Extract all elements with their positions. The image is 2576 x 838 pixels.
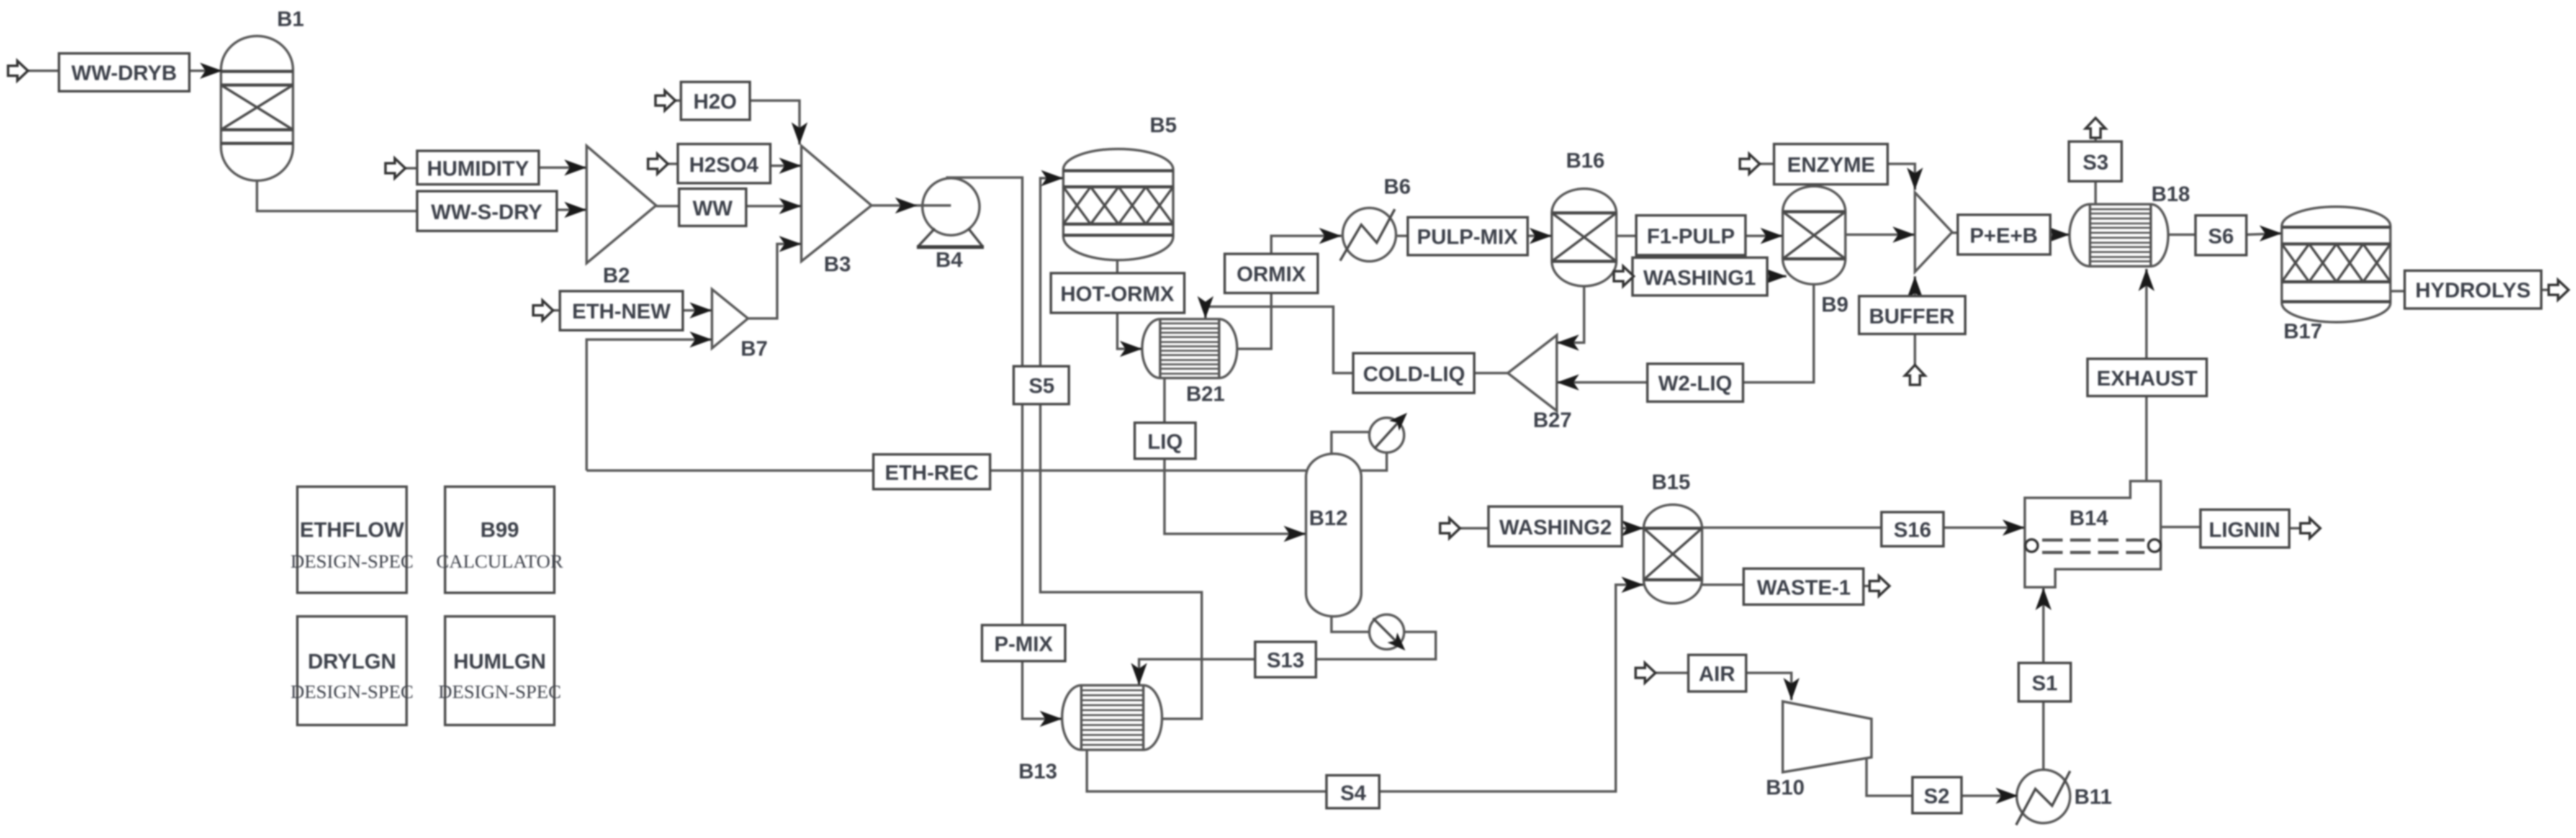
- svg-text:DRYLGN: DRYLGN: [308, 650, 396, 674]
- svg-text:B4: B4: [935, 248, 963, 272]
- svg-text:B14: B14: [2069, 507, 2108, 530]
- svg-text:ETHFLOW: ETHFLOW: [300, 518, 405, 542]
- svg-text:S4: S4: [1340, 782, 1366, 805]
- svg-text:B27: B27: [1533, 408, 1572, 432]
- svg-text:B18: B18: [2151, 182, 2190, 206]
- svg-text:LIQ: LIQ: [1148, 430, 1183, 454]
- svg-text:B2: B2: [603, 264, 629, 287]
- svg-text:HUMIDITY: HUMIDITY: [427, 157, 529, 181]
- svg-text:B12: B12: [1309, 507, 1348, 530]
- svg-text:WW-S-DRY: WW-S-DRY: [431, 200, 543, 224]
- svg-text:P-MIX: P-MIX: [994, 633, 1053, 656]
- svg-text:PULP-MIX: PULP-MIX: [1417, 225, 1518, 249]
- svg-text:H2O: H2O: [693, 90, 737, 114]
- svg-text:B1: B1: [277, 7, 304, 31]
- svg-text:ETH-REC: ETH-REC: [885, 461, 978, 485]
- svg-text:S3: S3: [2083, 151, 2109, 174]
- svg-text:B21: B21: [1186, 382, 1225, 406]
- svg-text:WW-DRYB: WW-DRYB: [71, 61, 177, 85]
- svg-text:P+E+B: P+E+B: [1970, 224, 2038, 248]
- svg-text:LIGNIN: LIGNIN: [2209, 518, 2280, 542]
- svg-text:F1-PULP: F1-PULP: [1647, 225, 1735, 248]
- svg-text:S5: S5: [1029, 374, 1055, 398]
- svg-text:HOT-ORMX: HOT-ORMX: [1060, 282, 1174, 306]
- svg-text:S16: S16: [1894, 518, 1932, 542]
- svg-text:HUMLGN: HUMLGN: [453, 650, 546, 674]
- svg-text:ENZYME: ENZYME: [1787, 153, 1875, 177]
- svg-text:B13: B13: [1019, 760, 1057, 783]
- svg-text:DESIGN-SPEC: DESIGN-SPEC: [290, 551, 413, 572]
- svg-text:S2: S2: [1924, 785, 1950, 808]
- svg-text:COLD-LIQ: COLD-LIQ: [1363, 363, 1465, 386]
- svg-text:CALCULATOR: CALCULATOR: [436, 551, 564, 572]
- svg-text:WASHING1: WASHING1: [1643, 266, 1755, 290]
- svg-text:S1: S1: [2032, 672, 2058, 695]
- svg-text:DESIGN-SPEC: DESIGN-SPEC: [290, 681, 413, 703]
- svg-text:WASHING2: WASHING2: [1499, 516, 1611, 539]
- svg-text:B6: B6: [1384, 175, 1410, 199]
- svg-text:ETH-NEW: ETH-NEW: [572, 300, 672, 323]
- svg-text:B7: B7: [741, 337, 767, 361]
- svg-text:DESIGN-SPEC: DESIGN-SPEC: [438, 681, 561, 703]
- svg-text:B16: B16: [1566, 149, 1605, 173]
- svg-text:WASTE-1: WASTE-1: [1757, 576, 1850, 600]
- svg-text:W2-LIQ: W2-LIQ: [1659, 372, 1732, 395]
- svg-text:B11: B11: [2074, 785, 2112, 809]
- svg-text:B15: B15: [1652, 471, 1690, 494]
- svg-text:EXHAUST: EXHAUST: [2097, 367, 2198, 390]
- svg-text:B9: B9: [1821, 293, 1848, 317]
- svg-text:B99: B99: [480, 518, 519, 542]
- svg-text:B3: B3: [824, 253, 850, 276]
- svg-text:H2SO4: H2SO4: [689, 153, 759, 177]
- svg-text:AIR: AIR: [1699, 662, 1736, 686]
- svg-text:HYDROLYS: HYDROLYS: [2415, 279, 2531, 302]
- svg-text:B5: B5: [1150, 114, 1176, 137]
- svg-text:S13: S13: [1267, 649, 1305, 672]
- svg-text:ORMIX: ORMIX: [1236, 263, 1306, 286]
- svg-text:B17: B17: [2284, 320, 2322, 343]
- svg-text:BUFFER: BUFFER: [1869, 305, 1955, 328]
- svg-text:B10: B10: [1766, 776, 1804, 800]
- svg-text:S6: S6: [2208, 225, 2234, 248]
- svg-text:WW: WW: [693, 197, 733, 220]
